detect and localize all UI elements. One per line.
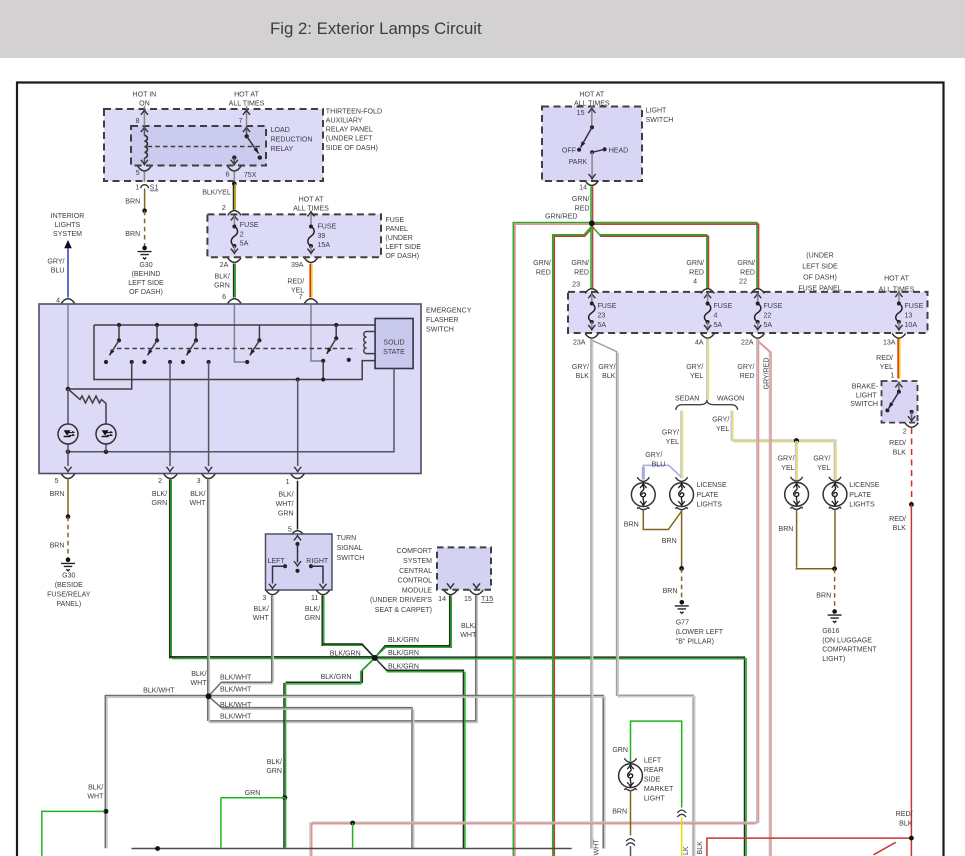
label WHT rotated bbox=[593, 839, 600, 856]
svg-text:YEL: YEL bbox=[880, 364, 893, 371]
label (UNDER LEFT SIDE OF DASH) FUSE PANEL bbox=[798, 253, 841, 293]
svg-text:BLK: BLK bbox=[899, 821, 913, 828]
svg-text:BLK: BLK bbox=[893, 525, 907, 532]
svg-text:GRN: GRN bbox=[266, 768, 282, 775]
label BLK/GRN right bbox=[388, 650, 419, 657]
wire BLK below marker connector bbox=[630, 846, 632, 856]
sedan license plate lamp left bbox=[631, 477, 655, 509]
flasher internal: pin 6 wire bbox=[234, 305, 247, 362]
svg-text:5: 5 bbox=[55, 478, 59, 485]
svg-text:GRY/: GRY/ bbox=[572, 364, 589, 371]
svg-text:WHT: WHT bbox=[189, 500, 206, 507]
flasher pin 5 connector bbox=[55, 474, 75, 485]
label GRY/RED rotated bbox=[763, 358, 770, 390]
wire BLK/GRN junction ray lower-left bbox=[286, 658, 375, 684]
wire BLK/GRN comfort pin 14 to junction bbox=[375, 595, 452, 658]
fuse 39 feed bbox=[307, 212, 314, 226]
svg-text:SEAT & CARPET): SEAT & CARPET) bbox=[375, 607, 432, 614]
label BRAKE-LIGHT SWITCH bbox=[850, 384, 878, 408]
svg-text:CENTRAL: CENTRAL bbox=[399, 568, 432, 575]
wagon license plate lamp left bbox=[785, 477, 809, 509]
fuse panel pin 39A connector bbox=[291, 258, 318, 269]
wire GRY/BLK 2 branch with jog bbox=[593, 341, 695, 856]
wire BLK/WHT turn signal pin 3 down bbox=[253, 595, 274, 683]
splice junction GRN/RED dot overlay bbox=[589, 221, 595, 227]
svg-text:GRY/: GRY/ bbox=[598, 364, 615, 371]
svg-text:RELAY PANEL: RELAY PANEL bbox=[326, 127, 373, 134]
svg-text:6: 6 bbox=[222, 294, 226, 301]
splice S1 bbox=[135, 185, 158, 192]
svg-text:G616: G616 bbox=[822, 628, 839, 635]
svg-text:FUSE: FUSE bbox=[905, 303, 924, 310]
label BLK/WHT ray 3 bbox=[220, 674, 252, 681]
svg-text:BLK/WHT: BLK/WHT bbox=[143, 688, 175, 695]
wire GRY/YEL fuse 4A to sedan/wagon split bbox=[686, 339, 708, 400]
svg-text:5A: 5A bbox=[714, 322, 723, 329]
svg-text:22: 22 bbox=[739, 279, 747, 286]
svg-text:BRN: BRN bbox=[612, 808, 627, 815]
inline connector on GRN/YEL wire bbox=[677, 810, 686, 817]
pin 23 label bbox=[572, 282, 580, 289]
svg-text:11: 11 bbox=[311, 595, 318, 602]
wire BRN sedan lamps to G77 bbox=[662, 510, 682, 569]
svg-text:BRN: BRN bbox=[624, 521, 639, 528]
label BLK/WHT left of junction bbox=[190, 671, 207, 687]
svg-text:SWITCH: SWITCH bbox=[850, 401, 878, 408]
svg-text:BLK/: BLK/ bbox=[191, 671, 206, 678]
flasher internal: pin 7 wire bbox=[311, 305, 323, 361]
svg-text:AUXILIARY: AUXILIARY bbox=[326, 118, 363, 125]
sedan/wagon brace bbox=[676, 400, 738, 410]
turn signal pin 3 connector bbox=[262, 590, 279, 602]
fuse 13 10A bbox=[895, 292, 923, 330]
svg-text:PANEL): PANEL) bbox=[56, 601, 81, 608]
svg-text:BRN: BRN bbox=[50, 491, 65, 498]
wire GRY/RED fuse 22A down and left across bottom bbox=[310, 339, 758, 856]
flasher internal: pin 1 drop wire bbox=[294, 377, 301, 471]
load reduction relay box bbox=[131, 126, 266, 166]
svg-text:OF DASH): OF DASH) bbox=[803, 275, 837, 282]
svg-text:23: 23 bbox=[598, 312, 606, 319]
label LEFT REAR SIDE MARKET LIGHT bbox=[644, 757, 674, 802]
svg-text:PLATE: PLATE bbox=[697, 492, 719, 499]
brake switch output contact bbox=[908, 410, 915, 421]
wire BLK/WHT junction ray 4 right bbox=[209, 696, 605, 849]
svg-text:SOLID: SOLID bbox=[383, 340, 404, 347]
svg-text:BLK: BLK bbox=[697, 841, 704, 855]
wire BRN dashed to ground G30 beside panel bbox=[50, 517, 68, 559]
wire BRN flasher pin 5 bbox=[50, 479, 68, 516]
svg-text:YEL: YEL bbox=[666, 439, 679, 446]
label GRN/RED fuse 23 wire bbox=[571, 260, 589, 276]
relay pin 6 bbox=[226, 166, 257, 183]
svg-text:13A: 13A bbox=[883, 340, 896, 347]
wire YEL below connector bbox=[681, 818, 683, 856]
wire BLK/WHT junction ray 5 bbox=[209, 696, 414, 848]
svg-text:GRY/: GRY/ bbox=[645, 452, 662, 459]
wire BRN sedan lamp 1 to lamp 2 bbox=[624, 510, 681, 530]
svg-text:BRN: BRN bbox=[779, 526, 794, 533]
svg-text:PARK: PARK bbox=[569, 159, 588, 166]
label THIRTEEN-FOLD AUXILIARY RELAY PANEL bbox=[326, 108, 382, 151]
label GRY/YEL wagon lamp 2 bbox=[813, 455, 830, 472]
svg-text:G30: G30 bbox=[139, 262, 152, 269]
svg-text:LIGHT: LIGHT bbox=[646, 108, 667, 115]
title bar bbox=[0, 0, 965, 58]
pin 7 entry bbox=[239, 106, 251, 132]
splice dot GRN to BLK/GRN bbox=[282, 795, 287, 800]
svg-text:RED: RED bbox=[575, 205, 590, 212]
svg-text:BLK/WHT: BLK/WHT bbox=[220, 687, 252, 694]
svg-text:GRN/: GRN/ bbox=[533, 260, 551, 267]
svg-text:FUSE: FUSE bbox=[240, 222, 259, 229]
label BLK/ WHT at lower left vertical bbox=[87, 784, 104, 800]
turn signal pin 11 connector bbox=[311, 590, 330, 602]
wire BRN dashed to ground G616 bbox=[834, 569, 836, 610]
wire BLK/GRN junction ray right to rear bbox=[375, 657, 746, 856]
flasher switch 5 bbox=[321, 323, 351, 382]
svg-text:39A: 39A bbox=[291, 262, 304, 269]
light switch PARK contact bbox=[569, 150, 595, 166]
flasher pin 6 connector bbox=[222, 294, 241, 310]
turn signal LEFT contact bbox=[268, 558, 288, 589]
label LICENSE PLATE LIGHTS (sedan) bbox=[697, 482, 727, 508]
svg-text:2: 2 bbox=[158, 478, 162, 485]
svg-text:TURN: TURN bbox=[337, 535, 357, 542]
wire GRN into splice bbox=[221, 790, 285, 848]
bottom rail wire BLK bbox=[132, 848, 572, 850]
splice dot on bottom rail bbox=[155, 846, 160, 851]
flasher relay coil at solid state bbox=[364, 332, 375, 354]
svg-text:BLK/: BLK/ bbox=[278, 491, 293, 498]
turn signal internal pole bbox=[294, 536, 301, 573]
wire BLK/GRN junction ray lower-right bbox=[375, 658, 465, 849]
svg-text:GRN: GRN bbox=[612, 747, 628, 754]
wire BLK/GRN below splice to bottom rail bbox=[284, 798, 286, 848]
svg-text:SYSTEM: SYSTEM bbox=[53, 231, 82, 238]
emergency flasher switch box bbox=[39, 304, 421, 474]
svg-text:LEFT: LEFT bbox=[644, 757, 662, 764]
svg-text:LIGHTS: LIGHTS bbox=[849, 501, 875, 508]
svg-text:LEFT: LEFT bbox=[268, 558, 286, 565]
svg-text:2: 2 bbox=[240, 232, 244, 239]
light switch OFF contact label bbox=[562, 148, 577, 155]
splice dot green branch bbox=[103, 809, 108, 814]
flasher internal: solid state bottom rail bbox=[66, 368, 394, 454]
svg-text:14: 14 bbox=[438, 596, 446, 603]
svg-text:BRN: BRN bbox=[663, 588, 678, 595]
ground G30 (behind left side of dash) bbox=[128, 246, 164, 296]
svg-text:WHT: WHT bbox=[460, 632, 477, 639]
thirteen-fold auxiliary relay panel box bbox=[104, 109, 323, 181]
brake light switch box bbox=[882, 381, 918, 423]
svg-text:BLU: BLU bbox=[51, 268, 65, 275]
splice dot on BRN bbox=[142, 208, 147, 213]
fuse panel (under left side of dash) box bbox=[207, 214, 381, 257]
svg-text:SIGNAL: SIGNAL bbox=[337, 545, 363, 552]
svg-text:YEL: YEL bbox=[690, 373, 703, 380]
svg-text:LICENSE: LICENSE bbox=[697, 482, 727, 489]
svg-text:RED: RED bbox=[740, 269, 755, 276]
svg-text:RED: RED bbox=[536, 269, 551, 276]
light switch HEAD contact bbox=[592, 147, 628, 155]
label EMERGENCY FLASHER SWITCH bbox=[426, 308, 472, 334]
svg-text:5A: 5A bbox=[764, 322, 773, 329]
svg-text:LK: LK bbox=[683, 846, 690, 855]
flasher internal: switch1 contact to main node bbox=[66, 362, 132, 391]
svg-text:GRY/: GRY/ bbox=[712, 417, 729, 424]
svg-text:RIGHT: RIGHT bbox=[306, 558, 329, 565]
splice dot RED/BLK bottom bbox=[909, 836, 914, 841]
flasher pin 7 connector bbox=[299, 294, 318, 310]
svg-text:BLK/: BLK/ bbox=[152, 491, 167, 498]
splice junction BLK/WHT bbox=[206, 694, 212, 700]
splice junction BLK/GRN bbox=[372, 655, 378, 661]
svg-text:WAGON: WAGON bbox=[717, 395, 744, 402]
wire GRY/RED second branch down page bbox=[757, 341, 771, 856]
svg-text:BLU: BLU bbox=[652, 461, 666, 468]
svg-text:FUSE: FUSE bbox=[714, 303, 733, 310]
flasher switch 3 bbox=[181, 323, 211, 364]
svg-text:7: 7 bbox=[299, 294, 303, 301]
svg-text:RELAY: RELAY bbox=[271, 146, 294, 153]
svg-text:GRY/: GRY/ bbox=[662, 429, 679, 436]
wire BLK/WHT flasher pin 3 to junction bbox=[189, 479, 209, 696]
svg-text:BLK: BLK bbox=[893, 449, 907, 456]
svg-text:FUSE/RELAY: FUSE/RELAY bbox=[47, 591, 91, 598]
svg-text:(UNDER DRIVER'S: (UNDER DRIVER'S bbox=[370, 597, 432, 604]
svg-text:GRN: GRN bbox=[214, 282, 230, 289]
splice junction BLK/WHT dot overlay bbox=[206, 693, 212, 699]
svg-text:BLK/: BLK/ bbox=[190, 491, 205, 498]
svg-text:GRY/: GRY/ bbox=[686, 364, 703, 371]
pin 4 label bbox=[693, 279, 697, 286]
label INTERIOR LIGHTS SYSTEM bbox=[51, 213, 85, 238]
svg-text:23A: 23A bbox=[573, 340, 586, 347]
svg-text:WHT/: WHT/ bbox=[276, 501, 294, 508]
fuse 23 5A bbox=[585, 289, 616, 330]
svg-text:22: 22 bbox=[764, 312, 772, 319]
solid state box bbox=[375, 319, 413, 369]
label TURN SIGNAL SWITCH bbox=[337, 535, 365, 562]
svg-text:SIDE: SIDE bbox=[644, 776, 661, 783]
splice dot BRN wagon bbox=[832, 566, 837, 571]
flasher internal: pin 2 drop wire bbox=[166, 362, 173, 472]
svg-text:75X: 75X bbox=[244, 172, 257, 179]
light switch pin 14 exit bbox=[579, 152, 598, 191]
pin 4A connector bbox=[695, 334, 714, 347]
svg-text:10A: 10A bbox=[905, 322, 918, 329]
svg-text:LIGHT: LIGHT bbox=[644, 795, 665, 802]
svg-text:BLK/WHT: BLK/WHT bbox=[220, 702, 252, 709]
svg-text:REAR: REAR bbox=[644, 767, 664, 774]
sedan license plate lamp right bbox=[670, 477, 694, 509]
svg-text:GRY/RED: GRY/RED bbox=[763, 358, 770, 390]
wire GRN bottom left corner bbox=[42, 811, 105, 856]
wire GRN/RED center to fuse 23 bbox=[591, 224, 593, 289]
svg-text:FLASHER: FLASHER bbox=[426, 317, 459, 324]
svg-text:RED/: RED/ bbox=[889, 516, 906, 523]
pin 8 entry bbox=[136, 106, 148, 132]
svg-text:WHT: WHT bbox=[253, 615, 270, 622]
svg-text:4A: 4A bbox=[695, 340, 704, 347]
ground G77 (lower left B pillar) bbox=[675, 600, 724, 645]
wire GRY/YEL wagon branch bbox=[712, 411, 836, 481]
svg-text:BRN: BRN bbox=[50, 542, 65, 549]
wire BRN dashed to ground G30 bbox=[125, 211, 144, 247]
label BLK/WHT ray 6 bbox=[220, 714, 252, 721]
svg-text:BLK/GRN: BLK/GRN bbox=[388, 664, 419, 671]
svg-text:HOT AT: HOT AT bbox=[234, 92, 259, 99]
turn signal RIGHT contact bbox=[306, 558, 329, 589]
wire GRY/YEL sedan branch to license lamp bbox=[662, 411, 683, 479]
svg-text:2A: 2A bbox=[220, 262, 229, 269]
svg-text:BLK/GRN: BLK/GRN bbox=[321, 674, 352, 681]
svg-text:BRN: BRN bbox=[816, 592, 831, 599]
svg-text:(BEHIND: (BEHIND bbox=[132, 271, 161, 278]
wire GRN arch to marker light bbox=[612, 721, 681, 807]
svg-text:OF DASH): OF DASH) bbox=[129, 289, 163, 296]
svg-text:2: 2 bbox=[903, 429, 907, 436]
wire BRN wagon lamp 1 bbox=[779, 510, 833, 569]
wire BLK/GRN down to marker splice bbox=[266, 683, 285, 798]
svg-text:SWITCH: SWITCH bbox=[337, 555, 365, 562]
wire GRY/BLK 1 fuse 23A down page bbox=[572, 339, 593, 849]
svg-text:(BESIDE: (BESIDE bbox=[55, 582, 83, 589]
wire GRN/RED sub-branch right to fuse 4 bbox=[592, 226, 709, 289]
svg-text:GRN/: GRN/ bbox=[572, 196, 590, 203]
svg-text:15A: 15A bbox=[318, 242, 331, 249]
svg-text:5: 5 bbox=[136, 170, 140, 177]
svg-text:4: 4 bbox=[693, 279, 697, 286]
arrow to interior lights system bbox=[64, 240, 72, 248]
wire GRN stub below splice bbox=[352, 823, 354, 848]
svg-text:YEL: YEL bbox=[817, 465, 830, 472]
svg-text:1: 1 bbox=[135, 185, 139, 192]
flasher pin 3 connector bbox=[197, 474, 216, 485]
wire BRN dashed to ground G77 bbox=[663, 568, 682, 600]
flasher internal: pin 3 drop wire bbox=[205, 362, 212, 472]
fuse 39 15A bbox=[307, 224, 336, 254]
flasher internal: gang dashed link bbox=[117, 348, 356, 350]
svg-text:G77: G77 bbox=[676, 620, 689, 627]
relay coil-switch dashed link bbox=[148, 146, 262, 148]
turn signal switch pin 5 connector bbox=[288, 526, 304, 535]
splice junction BLK/GRN dot overlay bbox=[372, 655, 378, 661]
label WAGON bbox=[717, 395, 744, 402]
svg-text:14: 14 bbox=[579, 185, 587, 192]
svg-text:LOAD: LOAD bbox=[271, 127, 290, 134]
svg-text:5A: 5A bbox=[240, 241, 249, 248]
label GRN/RED fuse 4 wire bbox=[686, 260, 704, 276]
svg-text:SWITCH: SWITCH bbox=[646, 117, 674, 124]
svg-text:WHT: WHT bbox=[190, 680, 207, 687]
svg-text:RED/: RED/ bbox=[287, 278, 304, 285]
fuse 22 5A bbox=[751, 289, 783, 330]
label BLK/WHT ray 5 bbox=[220, 702, 252, 709]
wire GRN/RED light switch pin 14 to junction bbox=[572, 186, 593, 223]
svg-text:5A: 5A bbox=[598, 322, 607, 329]
label GRN/RED far left wire bbox=[533, 260, 551, 276]
wire BLK/GRN flasher pin 2 to splice bbox=[152, 479, 375, 658]
svg-text:FUSE: FUSE bbox=[764, 303, 783, 310]
left rear side marker light lamp bbox=[619, 758, 643, 790]
ground G30 (beside fuse/relay panel) bbox=[47, 558, 91, 608]
wire GRN/RED junction left branch down page bbox=[513, 223, 592, 856]
label BLK/WHT ray left bbox=[143, 688, 175, 695]
wire BLK/WHT junction ray 3 to turn signal pin 3 bbox=[209, 682, 273, 696]
svg-text:FUSE: FUSE bbox=[318, 224, 337, 231]
relay coil bbox=[141, 127, 148, 165]
label BLK/GRN upper bbox=[388, 637, 419, 644]
svg-text:7: 7 bbox=[239, 118, 243, 125]
svg-text:GRN/RED: GRN/RED bbox=[545, 213, 578, 220]
svg-text:BRN: BRN bbox=[662, 538, 677, 545]
svg-text:BLK/GRN: BLK/GRN bbox=[388, 650, 419, 657]
splice dot GRY/YEL wagon bbox=[794, 438, 799, 443]
svg-text:G30: G30 bbox=[62, 572, 75, 579]
flasher internal: indicator LED 2 bbox=[96, 424, 116, 452]
svg-text:15: 15 bbox=[577, 110, 585, 117]
svg-text:RED/: RED/ bbox=[896, 811, 913, 818]
svg-text:BLK/GRN: BLK/GRN bbox=[388, 637, 419, 644]
svg-text:WHT: WHT bbox=[87, 793, 104, 800]
svg-text:(ON LUGGAGE: (ON LUGGAGE bbox=[822, 637, 872, 644]
svg-text:BLK/: BLK/ bbox=[254, 606, 269, 613]
wire BLK/WHT comfort pin 15 down bbox=[209, 595, 478, 722]
wire RED/BLK dashed brake switch to splice bbox=[889, 428, 911, 505]
wire RED/YEL fuse 13A to brake light switch bbox=[876, 339, 900, 379]
comfort module pin 15 connector bbox=[464, 583, 493, 603]
flasher switch 2 bbox=[142, 323, 172, 364]
svg-text:S1: S1 bbox=[150, 185, 159, 192]
svg-text:LEFT SIDE: LEFT SIDE bbox=[128, 280, 164, 287]
svg-text:6: 6 bbox=[226, 171, 230, 178]
pin 22A connector bbox=[741, 334, 764, 347]
svg-text:YEL: YEL bbox=[781, 465, 794, 472]
svg-text:REDUCTION: REDUCTION bbox=[271, 136, 313, 143]
label COMFORT SYSTEM CENTRAL CONTROL MODULE bbox=[370, 548, 433, 614]
pin 13A connector bbox=[883, 334, 906, 347]
splice dot on GRY/RED bottom run bbox=[350, 821, 355, 826]
svg-text:39: 39 bbox=[318, 233, 326, 240]
wagon license plate lamp right bbox=[823, 477, 847, 509]
svg-text:15: 15 bbox=[464, 596, 472, 603]
svg-text:SIDE OF DASH): SIDE OF DASH) bbox=[326, 145, 378, 152]
label LICENSE PLATE LIGHTS (wagon) bbox=[849, 482, 879, 508]
relay switch contacts bbox=[231, 127, 262, 165]
svg-text:BRN: BRN bbox=[125, 231, 140, 238]
svg-text:HEAD: HEAD bbox=[609, 148, 629, 155]
wire BRN wagon lamp 2 bbox=[816, 510, 835, 600]
svg-text:LEFT SIDE: LEFT SIDE bbox=[802, 264, 838, 271]
label HOT AT ALL TIMES (fuse 39) bbox=[293, 197, 329, 213]
flasher switch 1 bbox=[104, 323, 134, 364]
wire BLK/WHT/GRN flasher pin 1 to turn signal switch bbox=[276, 481, 298, 530]
svg-text:LIGHT): LIGHT) bbox=[822, 656, 845, 663]
svg-text:BLK: BLK bbox=[576, 373, 590, 380]
svg-text:HOT IN: HOT IN bbox=[133, 92, 157, 99]
svg-text:1: 1 bbox=[890, 372, 894, 379]
splice dot on BRN pin5 bbox=[66, 514, 71, 519]
svg-text:2: 2 bbox=[222, 205, 226, 212]
svg-text:INTERIOR: INTERIOR bbox=[51, 213, 85, 220]
flasher internal: resistor bbox=[68, 389, 106, 424]
label BLK rotated bbox=[697, 841, 704, 855]
svg-text:HOT AT: HOT AT bbox=[884, 275, 909, 282]
svg-text:BLK/: BLK/ bbox=[267, 759, 282, 766]
wire BLK/GRN turn signal pin 11 down bbox=[305, 595, 324, 646]
